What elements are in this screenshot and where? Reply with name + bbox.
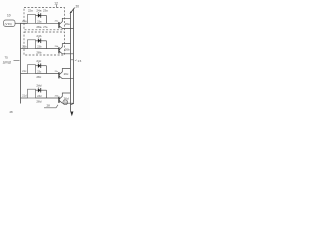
svg-text:28: 28: [10, 110, 14, 114]
svg-text:23b: 23b: [37, 46, 42, 49]
svg-text:23a: 23a: [37, 20, 42, 23]
svg-text:23a: 23a: [43, 9, 48, 13]
svg-text:26c: 26c: [64, 72, 69, 76]
svg-text:21a: 21a: [22, 20, 27, 23]
svg-text:10: 10: [7, 14, 11, 18]
svg-text:28: 28: [47, 104, 51, 108]
svg-text:ΔV/Δt: ΔV/Δt: [3, 61, 11, 65]
svg-text:28a: 28a: [36, 25, 41, 29]
svg-text:32: 32: [64, 101, 68, 105]
svg-text:23d: 23d: [37, 95, 42, 98]
svg-text:28b: 28b: [36, 50, 41, 54]
svg-text:20: 20: [76, 4, 80, 8]
svg-text:26a: 26a: [65, 22, 70, 26]
svg-text:28d: 28d: [36, 100, 41, 104]
svg-text:24d: 24d: [36, 83, 41, 87]
svg-text:24c: 24c: [36, 59, 41, 63]
svg-text:22a: 22a: [28, 9, 33, 13]
svg-text:26b: 26b: [65, 47, 70, 51]
svg-text:24a: 24a: [36, 9, 41, 13]
svg-text:24b: 24b: [36, 34, 41, 38]
svg-text:27a: 27a: [43, 26, 48, 29]
svg-text:16: 16: [78, 59, 82, 63]
svg-text:(VIN): (VIN): [5, 22, 12, 26]
svg-text:12: 12: [54, 1, 58, 5]
svg-text:21d: 21d: [22, 95, 27, 98]
svg-text:75: 75: [5, 56, 9, 60]
svg-text:21b: 21b: [22, 45, 27, 48]
svg-text:28c: 28c: [36, 75, 41, 79]
